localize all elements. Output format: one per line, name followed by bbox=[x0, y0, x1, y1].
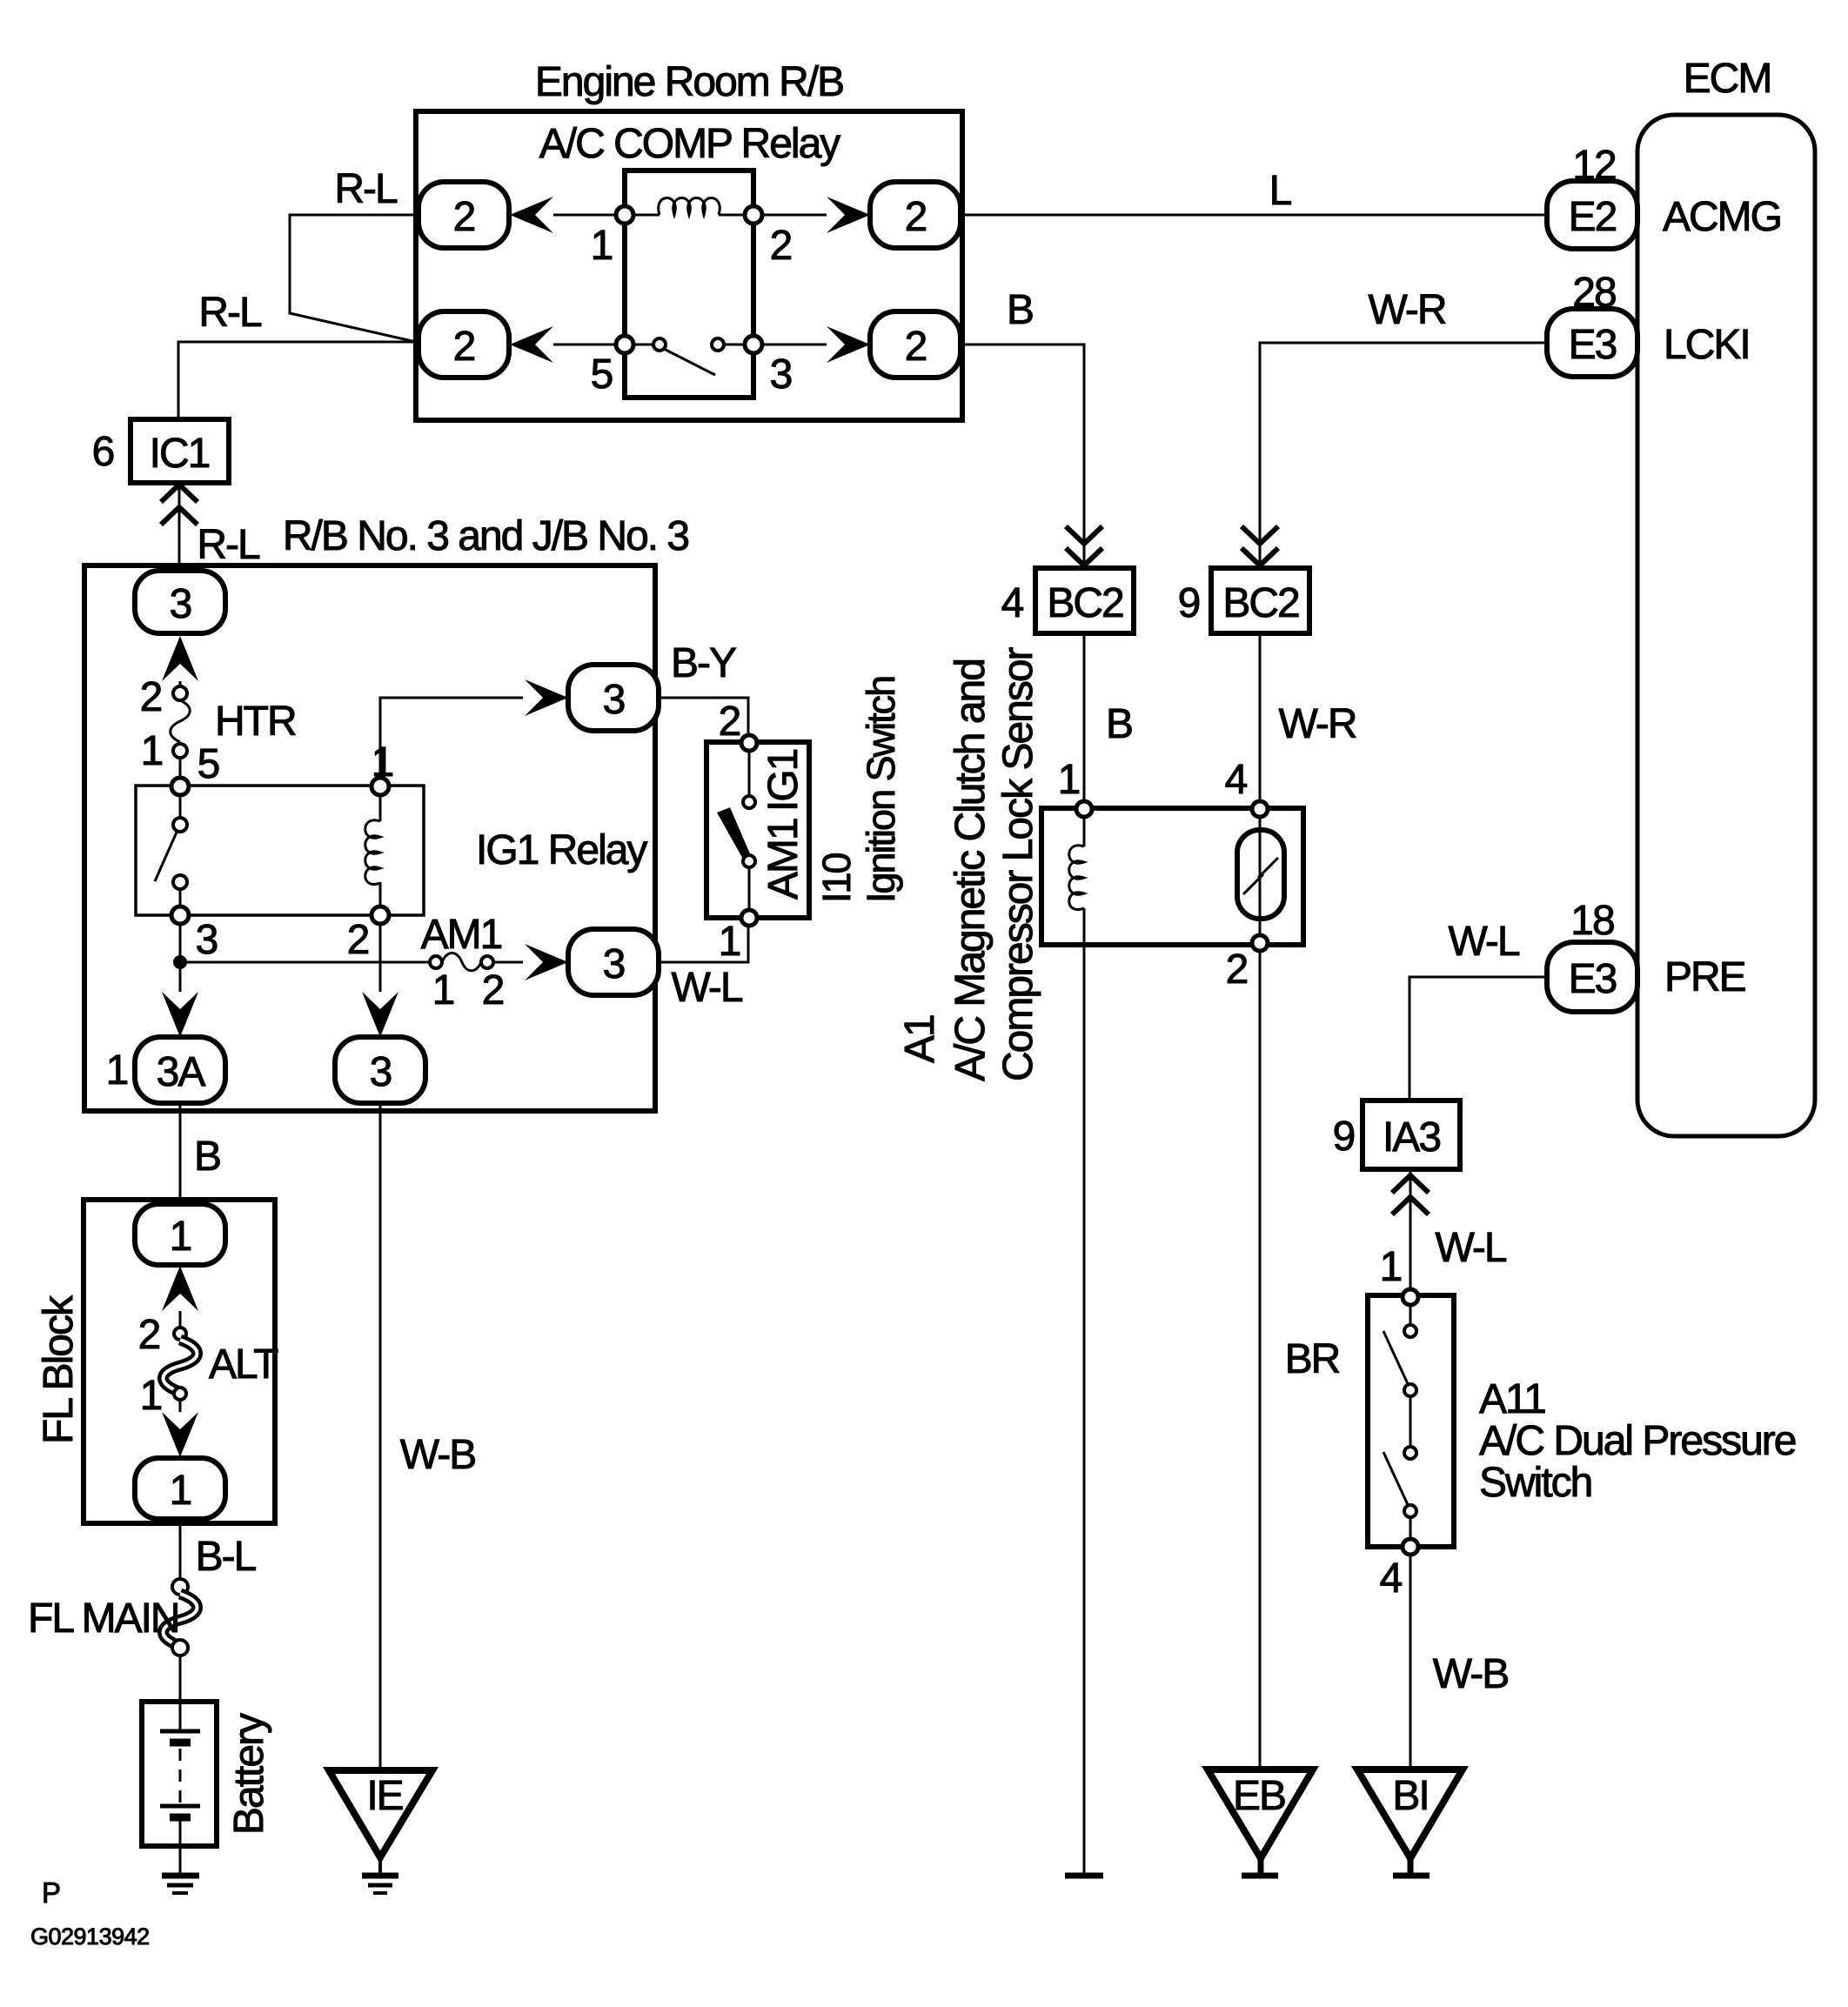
switch lever relay bbox=[664, 349, 715, 375]
switch I10 ignition box bbox=[706, 742, 809, 918]
svg-text:IG1 Relay: IG1 Relay bbox=[476, 827, 647, 873]
ground triangle BI bbox=[1357, 1770, 1463, 1858]
svg-text:A/C Dual Pressure: A/C Dual Pressure bbox=[1479, 1418, 1796, 1464]
svg-text:Engine Room R/B: Engine Room R/B bbox=[535, 59, 843, 105]
wire through lock sensor bbox=[1259, 817, 1262, 1770]
contact circle bbox=[1404, 1447, 1416, 1459]
svg-text:Switch: Switch bbox=[1479, 1460, 1591, 1506]
node ignition pin2 bbox=[741, 735, 757, 751]
svg-text:P: P bbox=[42, 1877, 61, 1909]
svg-text:E2: E2 bbox=[1569, 194, 1617, 240]
svg-text:2: 2 bbox=[1226, 947, 1248, 993]
svg-text:2: 2 bbox=[140, 674, 162, 720]
svg-text:G02913942: G02913942 bbox=[30, 1923, 150, 1950]
connector oval 3 (W-L) bbox=[568, 929, 659, 995]
svg-text:9: 9 bbox=[1178, 580, 1200, 626]
wire row1 right bbox=[762, 214, 827, 217]
wire relay row1 left bbox=[553, 214, 616, 217]
wire R-L row2 to IC1 bbox=[178, 342, 416, 419]
svg-text:IE: IE bbox=[366, 1773, 402, 1819]
svg-text:9: 9 bbox=[1333, 1114, 1355, 1160]
svg-text:1: 1 bbox=[591, 223, 613, 269]
arrow left row1 bbox=[510, 197, 553, 233]
node IG1 pin1 bbox=[372, 778, 389, 795]
contact circle bbox=[1404, 1325, 1416, 1337]
svg-text:3: 3 bbox=[770, 351, 792, 398]
ground bar EB bbox=[1242, 1858, 1278, 1876]
wire L to ECM E2 bbox=[961, 214, 1547, 217]
svg-text:3: 3 bbox=[170, 581, 191, 627]
arrow down into oval 1 bbox=[162, 1412, 198, 1457]
connector oval 3A bbox=[135, 1037, 225, 1103]
svg-text:4: 4 bbox=[1001, 580, 1024, 626]
connector oval 1 (top) bbox=[135, 1204, 225, 1265]
svg-text:1: 1 bbox=[432, 967, 454, 1014]
svg-text:BI: BI bbox=[1392, 1773, 1428, 1819]
svg-text:R-L: R-L bbox=[197, 522, 260, 568]
svg-text:EB: EB bbox=[1233, 1773, 1285, 1819]
svg-text:B-L: B-L bbox=[196, 1534, 257, 1580]
svg-text:W-L: W-L bbox=[1448, 919, 1519, 965]
svg-text:18: 18 bbox=[1570, 898, 1614, 944]
svg-text:I10: I10 bbox=[814, 853, 859, 903]
node IG1 pin3 bbox=[171, 906, 189, 924]
ground triangle IE bbox=[329, 1770, 432, 1857]
wire A11 internal mid bbox=[1409, 1396, 1412, 1447]
junction box IC1 bbox=[131, 419, 229, 483]
node A11 pin4 bbox=[1403, 1539, 1418, 1555]
box ECM bbox=[1637, 115, 1815, 1136]
contact circle upper bbox=[743, 796, 755, 808]
svg-text:AM1: AM1 bbox=[760, 819, 807, 900]
svg-text:2: 2 bbox=[770, 223, 792, 269]
connector oval 2 (top-right) bbox=[870, 182, 961, 248]
node A11 pin1 bbox=[1403, 1289, 1418, 1305]
arrow right W-L bbox=[525, 944, 568, 980]
connector oval 2 (bottom-left) bbox=[418, 311, 509, 378]
svg-text:E3: E3 bbox=[1569, 956, 1617, 1002]
wire clutch coil leads bbox=[1083, 817, 1086, 1873]
contact circle lower bbox=[173, 875, 187, 889]
svg-text:ACMG: ACMG bbox=[1663, 194, 1781, 240]
wire W-B from oval 3 to IE bbox=[379, 1103, 382, 1770]
svg-text:4: 4 bbox=[1225, 757, 1248, 803]
battery internals bbox=[179, 1702, 182, 1729]
svg-text:1: 1 bbox=[106, 1047, 128, 1094]
svg-text:1: 1 bbox=[140, 1373, 162, 1419]
wire row2 right bbox=[762, 344, 827, 346]
switch lever lower bbox=[1383, 1452, 1409, 1509]
node IG1 pin5 bbox=[171, 778, 189, 795]
svg-text:2: 2 bbox=[138, 1312, 160, 1358]
wire end bar (B ground) bbox=[1065, 1873, 1103, 1879]
contact circle bbox=[1404, 1505, 1416, 1517]
svg-text:Compressor Lock Sensor: Compressor Lock Sensor bbox=[995, 646, 1041, 1081]
component A1 magnetic clutch box bbox=[1041, 808, 1303, 945]
fuse HTR bbox=[173, 686, 187, 700]
svg-text:R-L: R-L bbox=[198, 290, 262, 336]
svg-text:R/B No. 3 and J/B No. 3: R/B No. 3 and J/B No. 3 bbox=[283, 513, 689, 559]
contact circle b bbox=[712, 338, 724, 351]
svg-text:Ignition Switch: Ignition Switch bbox=[859, 677, 903, 903]
svg-text:6: 6 bbox=[92, 429, 114, 475]
svg-text:L: L bbox=[1269, 168, 1292, 214]
switch lever ignition (wedge) bbox=[717, 807, 752, 862]
svg-text:B: B bbox=[194, 1134, 220, 1180]
connector oval E3 PRE bbox=[1547, 942, 1637, 1012]
wire IC1 to R/B box bbox=[178, 483, 181, 565]
wire to HTR fuse bbox=[179, 681, 182, 693]
connector oval 2 (bottom-right) bbox=[870, 311, 961, 378]
fuse AM1 bbox=[430, 956, 442, 968]
svg-text:1: 1 bbox=[170, 1468, 191, 1514]
svg-text:IA3: IA3 bbox=[1383, 1114, 1440, 1161]
wire B-Y from pin1 up and right bbox=[380, 698, 523, 778]
svg-text:A/C COMP Relay: A/C COMP Relay bbox=[539, 121, 841, 167]
wire B from relay to BC2 bbox=[961, 345, 1084, 568]
arrow down to 3A bbox=[162, 992, 198, 1037]
svg-text:BC2: BC2 bbox=[1222, 580, 1299, 626]
svg-text:IC1: IC1 bbox=[150, 431, 210, 477]
arrow up into oval 3 bbox=[162, 636, 198, 681]
svg-text:W-L: W-L bbox=[671, 965, 742, 1011]
svg-text:W-R: W-R bbox=[1278, 701, 1356, 747]
wire R-L row1 bend bbox=[290, 215, 418, 342]
switch lever upper bbox=[1383, 1331, 1409, 1388]
svg-text:FL Block: FL Block bbox=[36, 1295, 82, 1444]
connector oval 3 (top) bbox=[135, 571, 225, 633]
svg-text:1: 1 bbox=[170, 1214, 191, 1260]
connector oval E3 bbox=[1547, 309, 1637, 377]
fuse FL MAIN bbox=[172, 1579, 188, 1595]
wire AM1 to arrow bbox=[493, 961, 523, 964]
coil IG1 bbox=[365, 820, 380, 885]
svg-text:3A: 3A bbox=[157, 1049, 206, 1095]
wire ignition internal bbox=[748, 751, 751, 910]
box Engine Room R/B bbox=[416, 111, 962, 420]
node ignition pin1 bbox=[741, 910, 757, 926]
relay A/C COMP Relay body bbox=[625, 171, 753, 398]
svg-text:ALT: ALT bbox=[209, 1341, 278, 1388]
svg-text:B: B bbox=[1007, 287, 1033, 333]
svg-text:B: B bbox=[1106, 701, 1132, 747]
svg-text:A1: A1 bbox=[897, 1015, 943, 1063]
node pin2 relay bbox=[745, 206, 762, 224]
contact circle bbox=[1404, 1384, 1416, 1396]
ground battery bbox=[162, 1873, 199, 1879]
lock sensor diagonal marks bbox=[1243, 858, 1278, 894]
node clutch pin2 bbox=[1252, 935, 1268, 951]
chevron arrows down (W-R wire) bbox=[1242, 526, 1278, 565]
wire HTR to relay bbox=[179, 758, 182, 786]
junction box BC2 (left) bbox=[1035, 568, 1134, 633]
wire B-Y to ignition switch bbox=[659, 698, 748, 735]
wire A11 internal top bbox=[1409, 1305, 1412, 1325]
svg-text:3: 3 bbox=[370, 1049, 392, 1095]
wire IG1 contact leads bbox=[179, 795, 182, 906]
switch A11 box bbox=[1368, 1295, 1454, 1547]
box R/B No.3 and J/B No.3 bbox=[84, 565, 655, 1111]
svg-text:IG1: IG1 bbox=[760, 749, 807, 812]
svg-text:1: 1 bbox=[1058, 757, 1080, 803]
svg-text:AM1: AM1 bbox=[421, 912, 502, 958]
wire relay coil row bbox=[633, 214, 745, 217]
arrow right row1 bbox=[827, 197, 870, 233]
svg-text:1: 1 bbox=[719, 919, 740, 965]
svg-text:Battery: Battery bbox=[226, 1713, 272, 1835]
svg-text:E3: E3 bbox=[1569, 322, 1617, 368]
wire to FL MAIN bbox=[179, 1519, 182, 1579]
wire W-L to ignition switch bbox=[659, 926, 748, 962]
connector oval 1 (bottom) bbox=[135, 1458, 225, 1519]
fuse ALT bbox=[174, 1328, 186, 1340]
svg-text:2: 2 bbox=[719, 699, 740, 745]
wire pin2 down bbox=[379, 924, 382, 992]
wire W-R BC2 to clutch bbox=[1259, 633, 1262, 801]
ground IE bbox=[378, 1857, 382, 1876]
wire W-L from E3 to IA3 bbox=[1409, 977, 1547, 1101]
ground triangle EB bbox=[1208, 1770, 1313, 1858]
svg-text:W-L: W-L bbox=[1435, 1225, 1506, 1271]
chevron arrows up (W-L wire) bbox=[1392, 1175, 1429, 1214]
arrow right B-Y bbox=[525, 679, 568, 716]
contact circle lower bbox=[743, 855, 755, 867]
switch lever IG1 bbox=[155, 828, 178, 881]
svg-text:3: 3 bbox=[603, 677, 625, 723]
wire relay row2 left bbox=[553, 344, 616, 346]
wire IA3 to pressure switch bbox=[1409, 1169, 1412, 1297]
svg-text:W-B: W-B bbox=[400, 1432, 475, 1478]
wire B BC2 to clutch bbox=[1083, 633, 1086, 809]
svg-text:W-B: W-B bbox=[1433, 1651, 1508, 1697]
svg-text:A/C Magnetic Clutch and: A/C Magnetic Clutch and bbox=[947, 659, 994, 1081]
ground bar BI bbox=[1393, 1858, 1430, 1876]
node pin5 relay bbox=[616, 336, 633, 353]
node IG1 pin2 bbox=[372, 906, 389, 924]
wire contact row bbox=[633, 344, 745, 346]
svg-text:FL MAIN: FL MAIN bbox=[28, 1596, 179, 1642]
wire B to FL block bbox=[179, 1103, 182, 1204]
svg-text:A11: A11 bbox=[1479, 1376, 1545, 1422]
wire from pin3 down with junction bbox=[179, 924, 182, 992]
junction box IA3 bbox=[1363, 1101, 1460, 1169]
wire to ALT fuse bbox=[179, 1311, 182, 1328]
svg-text:2: 2 bbox=[453, 194, 475, 240]
arrow down to 3 bbox=[362, 992, 398, 1037]
svg-text:BC2: BC2 bbox=[1047, 580, 1123, 626]
arrow up into oval 1 bbox=[162, 1266, 198, 1311]
lock sensor stadium bbox=[1237, 830, 1284, 919]
svg-text:5: 5 bbox=[198, 741, 219, 787]
coil relay A/C COMP bbox=[659, 198, 720, 216]
svg-text:4: 4 bbox=[1380, 1555, 1403, 1602]
connector oval 3 (B-Y) bbox=[568, 665, 659, 731]
arrow left row2 bbox=[510, 326, 553, 363]
svg-text:LCKI: LCKI bbox=[1664, 322, 1750, 368]
svg-text:2: 2 bbox=[347, 917, 369, 963]
battery box bbox=[142, 1702, 217, 1846]
coil clutch bbox=[1069, 846, 1084, 910]
connector oval E2 bbox=[1547, 181, 1637, 249]
wire battery to ground bbox=[179, 1846, 182, 1876]
svg-text:2: 2 bbox=[482, 967, 504, 1014]
arrow right row2 bbox=[827, 326, 870, 363]
connector oval 2 (top-left) bbox=[418, 182, 509, 248]
wire IG1 coil leads bbox=[379, 795, 382, 906]
connector oval 3 (bottom) bbox=[335, 1037, 425, 1103]
wire junction to AM1 fuse bbox=[180, 961, 430, 964]
svg-text:ECM: ECM bbox=[1684, 56, 1771, 102]
junction dot bbox=[173, 955, 187, 969]
svg-text:W-R: W-R bbox=[1368, 287, 1445, 333]
svg-text:HTR: HTR bbox=[215, 699, 296, 745]
chevron arrows down (B wire) bbox=[1066, 526, 1102, 565]
wire to battery bbox=[179, 1656, 182, 1702]
svg-text:1: 1 bbox=[141, 728, 163, 774]
contact circle upper bbox=[173, 818, 187, 832]
junction box BC2 (right) bbox=[1211, 568, 1309, 633]
svg-text:3: 3 bbox=[603, 941, 625, 987]
svg-text:2: 2 bbox=[905, 324, 927, 370]
wire ALT to arrow bbox=[179, 1400, 182, 1412]
contact circle a bbox=[653, 338, 666, 351]
node clutch pin1 bbox=[1076, 801, 1092, 817]
svg-text:BR: BR bbox=[1285, 1336, 1340, 1382]
svg-text:5: 5 bbox=[591, 351, 613, 398]
wire W-B to BI bbox=[1409, 1555, 1412, 1770]
box FL Block bbox=[84, 1200, 275, 1523]
svg-text:B-Y: B-Y bbox=[671, 640, 736, 686]
node pin3 relay bbox=[745, 336, 762, 353]
svg-text:2: 2 bbox=[453, 324, 475, 370]
svg-text:3: 3 bbox=[196, 917, 218, 963]
svg-text:R-L: R-L bbox=[334, 166, 398, 212]
svg-text:1: 1 bbox=[1380, 1244, 1402, 1290]
node clutch pin4 bbox=[1252, 801, 1268, 817]
wire A11 internal bottom bbox=[1409, 1517, 1412, 1539]
svg-text:2: 2 bbox=[905, 194, 927, 240]
chevron arrows up (R-L wire) bbox=[161, 485, 198, 525]
svg-text:PRE: PRE bbox=[1664, 954, 1745, 1000]
node pin1 relay bbox=[616, 206, 633, 224]
relay IG1 box bbox=[136, 786, 424, 915]
wire W-R from E3 to BC2 bbox=[1260, 343, 1547, 568]
